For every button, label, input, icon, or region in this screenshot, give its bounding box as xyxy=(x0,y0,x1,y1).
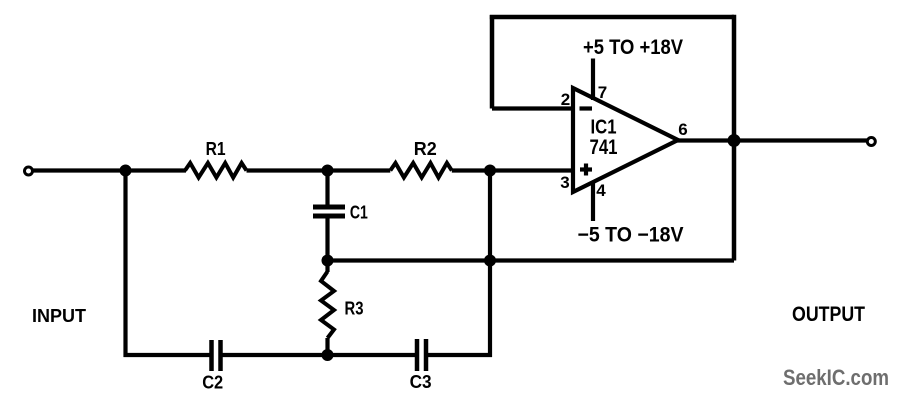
pin 4 lead xyxy=(591,181,595,221)
svg-text:C3: C3 xyxy=(410,372,432,392)
svg-text:+5 TO +18V: +5 TO +18V xyxy=(583,36,683,59)
svg-text:2: 2 xyxy=(561,90,570,109)
svg-text:C2: C2 xyxy=(202,373,223,393)
feedback top edge xyxy=(490,15,734,20)
svg-text:C1: C1 xyxy=(350,203,368,223)
wire input to R1 xyxy=(33,168,187,172)
svg-text:6: 6 xyxy=(678,120,687,139)
svg-text:R2: R2 xyxy=(414,139,437,159)
svg-text:OUTPUT: OUTPUT xyxy=(792,303,865,326)
wire bottom segment 3 xyxy=(428,353,492,357)
op-amp IC1 triangle xyxy=(573,88,678,192)
capacitor C1 top lead xyxy=(325,171,329,206)
pin 7 lead xyxy=(591,59,595,101)
wire R2 to op-amp xyxy=(452,168,573,172)
op-amp minus symbol xyxy=(580,106,593,110)
node R3 bottom xyxy=(322,349,334,361)
wire R1 to R2 xyxy=(247,168,391,172)
capacitor C1 bottom lead xyxy=(325,218,329,261)
svg-text:7: 7 xyxy=(598,83,607,102)
wire inverting input xyxy=(492,106,573,110)
resistor R3 xyxy=(325,261,329,273)
svg-text:R3: R3 xyxy=(345,299,364,319)
svg-text:R1: R1 xyxy=(206,139,226,159)
wire bottom segment 2 xyxy=(223,353,416,357)
resistor R1 xyxy=(185,163,247,178)
svg-text:4: 4 xyxy=(596,181,606,200)
output terminal xyxy=(867,138,875,146)
node input branch xyxy=(120,165,132,177)
wire mid vertical xyxy=(488,171,492,358)
node mid vertical xyxy=(484,255,496,267)
input terminal xyxy=(25,167,33,175)
wire output xyxy=(676,138,867,142)
wire bottom segment 1 xyxy=(124,353,210,357)
node C1/R3 xyxy=(322,255,334,267)
wire mid horizontal (feedback lower rail) xyxy=(328,258,735,262)
svg-text:741: 741 xyxy=(590,136,618,159)
svg-text:INPUT: INPUT xyxy=(32,306,86,326)
feedback right edge xyxy=(732,15,737,261)
svg-text:SeekIC.com: SeekIC.com xyxy=(783,365,889,390)
capacitor C2 xyxy=(209,340,214,371)
node A (R1/R2/C1) xyxy=(322,165,334,177)
capacitor C3 xyxy=(415,339,420,371)
op-amp plus symbol xyxy=(580,167,592,171)
node B (R2/op-amp input branch) xyxy=(484,165,496,177)
feedback left edge xyxy=(490,15,495,109)
resistor R2 xyxy=(390,163,452,178)
node output xyxy=(728,134,741,147)
wire input branch vertical xyxy=(123,171,127,358)
svg-text:−5 TO −18V: −5 TO −18V xyxy=(578,224,684,247)
svg-text:3: 3 xyxy=(560,173,569,192)
capacitor C1 xyxy=(313,205,345,210)
